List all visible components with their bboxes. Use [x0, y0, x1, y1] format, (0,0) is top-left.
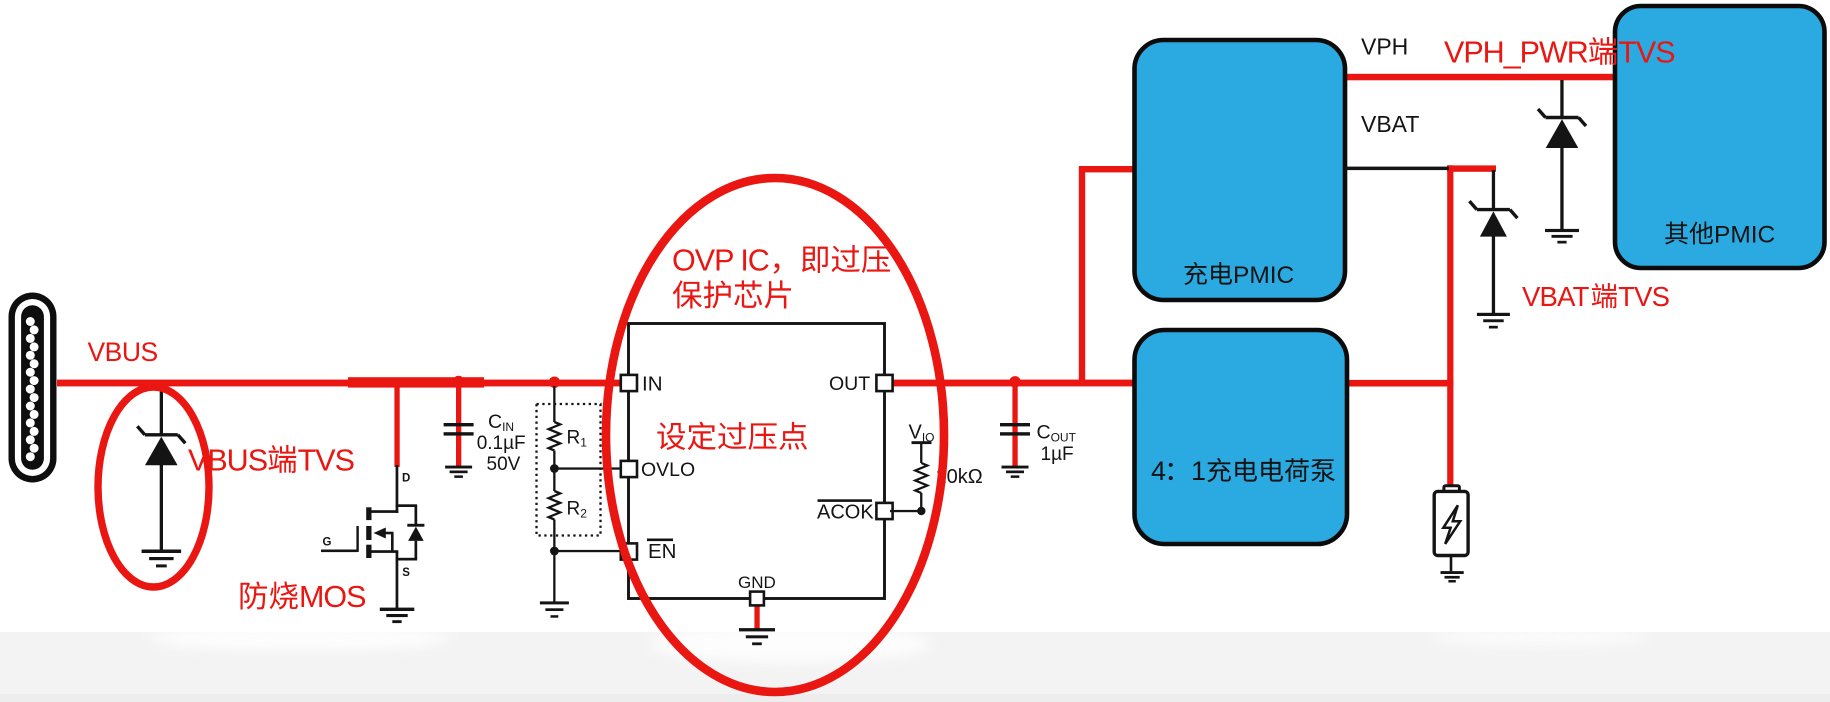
wire EN	[554, 550, 625, 552]
TVS diode D2 (VBAT)	[1469, 170, 1517, 329]
annotation label set OVP point	[657, 422, 685, 450]
net VIO pullup	[909, 422, 935, 512]
svg-text:OVP IC: OVP IC	[672, 244, 769, 278]
battery BT1	[1434, 486, 1468, 583]
wire ACOK	[890, 510, 921, 512]
wire battery riser	[1447, 165, 1453, 487]
wire IC GND stub	[754, 604, 759, 629]
svg-text:ACOK: ACOK	[817, 502, 874, 524]
resistor divider dotted box	[537, 404, 601, 536]
svg-text:S: S	[402, 567, 410, 579]
svg-text:TVS: TVS	[298, 444, 354, 478]
wire OUT net	[884, 380, 1135, 387]
svg-text:VBUS: VBUS	[88, 337, 158, 367]
svg-text:VBUS: VBUS	[188, 444, 267, 478]
node COUT junction	[1009, 376, 1020, 387]
pin GND	[750, 592, 764, 606]
block 4:1 charge pump	[1135, 330, 1348, 544]
svg-text:PMIC: PMIC	[1233, 262, 1294, 289]
svg-text:VPH: VPH	[1361, 34, 1408, 60]
svg-text:VBAT: VBAT	[1522, 281, 1590, 312]
label other PMIC	[1665, 222, 1688, 245]
wire VBAT black	[1345, 167, 1449, 171]
pin ACOK	[876, 503, 892, 519]
wire OUT to charging PMIC riser	[1079, 166, 1085, 386]
wire COUT stub	[1012, 382, 1017, 467]
label anti-burn MOS	[241, 581, 268, 609]
TVS diode D1 (VBUS)	[137, 386, 185, 567]
wire CIN stub	[456, 382, 461, 467]
pin EN	[621, 543, 637, 559]
node EN junction	[550, 547, 559, 556]
svg-text:PMIC: PMIC	[1714, 222, 1775, 249]
svg-text:VPH_PWR: VPH_PWR	[1444, 36, 1588, 70]
pin IN	[621, 375, 637, 391]
svg-text:4: 4	[1151, 456, 1166, 486]
annotation ellipse OVP IC	[606, 178, 944, 692]
block charging PMIC	[1135, 40, 1346, 300]
svg-text:VBAT: VBAT	[1361, 111, 1419, 137]
block other PMIC	[1615, 6, 1825, 268]
node OVLO junction	[550, 464, 559, 473]
pin OUT	[876, 375, 892, 391]
svg-text:MOS: MOS	[299, 580, 365, 614]
op IC U1 OVP	[629, 324, 885, 599]
wire OVLO	[554, 467, 625, 469]
svg-text:50V: 50V	[487, 454, 521, 475]
USB-C connector J1	[9, 293, 57, 483]
svg-text:G: G	[323, 537, 332, 549]
ground R2	[540, 551, 569, 618]
svg-text:IN: IN	[642, 373, 663, 396]
annotation ellipse VBUS TVS	[98, 387, 209, 587]
wire VBUS main	[57, 380, 631, 387]
resistor R1	[549, 386, 588, 468]
svg-text:OUT: OUT	[829, 373, 870, 395]
svg-text:TVS: TVS	[1618, 281, 1670, 312]
svg-text:1: 1	[1191, 456, 1206, 486]
svg-text:GND: GND	[738, 573, 776, 592]
label charging PMIC	[1184, 262, 1207, 285]
svg-text:1µF: 1µF	[1041, 444, 1074, 465]
node CIN junction	[453, 376, 464, 387]
ground IC GND	[739, 628, 775, 631]
background band	[0, 632, 1830, 702]
wire charge pump output	[1346, 380, 1453, 387]
node ACOK junction	[917, 507, 925, 515]
TVS diode D3 (VPH_PWR)	[1538, 80, 1586, 244]
wire VPH	[1346, 74, 1616, 81]
svg-text:D: D	[402, 473, 410, 485]
svg-text:OVLO: OVLO	[641, 459, 695, 481]
svg-text:TVS: TVS	[1618, 36, 1674, 70]
svg-text:EN: EN	[648, 540, 676, 563]
wire VBAT red segment	[1447, 165, 1496, 171]
capacitor CIN	[444, 423, 474, 478]
transistor Q1 anti-burn MOS	[321, 465, 424, 623]
node R1 junction	[549, 377, 560, 388]
wire MOSFET drain drop	[394, 383, 399, 467]
svg-text:0.1µF: 0.1µF	[477, 433, 526, 454]
pin OVLO	[621, 461, 637, 477]
resistor R2	[549, 469, 588, 552]
capacitor COUT	[1000, 423, 1030, 478]
